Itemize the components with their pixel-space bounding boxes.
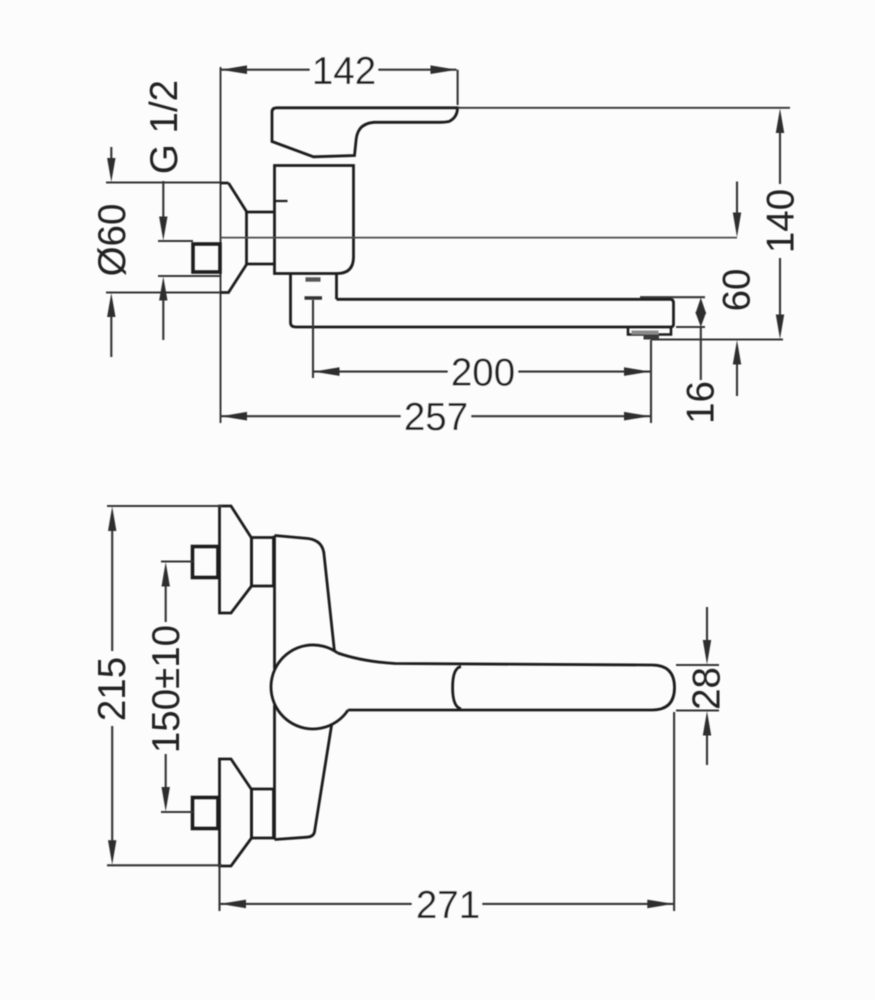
body parting tick (275, 200, 288, 202)
arrow G1/2 bottom (up, outside) (159, 277, 167, 301)
arrow 60 bottom (up, outside) (733, 340, 741, 365)
arrow 200 right (624, 367, 650, 376)
lower G1/2 nipple (thick) (193, 798, 219, 829)
ext 271 left (218, 866, 220, 911)
arrow 140 top (up) (776, 109, 784, 134)
arrow 215 bottom (down) (108, 840, 116, 865)
upper mounting nut (252, 538, 274, 587)
spout connector under body (291, 274, 337, 328)
label 142 (310, 52, 378, 88)
svg-text:200: 200 (451, 351, 515, 394)
upper G1/2 nipple (thick) (193, 547, 219, 578)
ext 28 bottom (676, 709, 719, 711)
svg-text:271: 271 (416, 884, 480, 927)
dim 28 shafts (706, 607, 708, 765)
escutcheon neck (247, 212, 275, 265)
escutcheon cone (side view) (221, 183, 247, 293)
svg-text:16: 16 (680, 381, 723, 424)
arrow 215 top (up) (108, 507, 116, 532)
connector ring tick lower (305, 296, 323, 300)
dim line 200 (313, 371, 651, 373)
label 271 (412, 887, 482, 921)
dim line 140 (779, 120, 781, 328)
lever grip end cap line (453, 667, 461, 709)
aerator dark insert (644, 335, 660, 340)
lever arm (338, 653, 675, 710)
svg-text:G 1/2: G 1/2 (143, 80, 186, 174)
arrow G1/2 top (down, outside) (159, 217, 167, 241)
svg-text:215: 215 (91, 657, 134, 721)
arrow 16 bowtie top (up) (695, 298, 706, 314)
ext lines Ø60 (106, 183, 221, 293)
dim 60 arrows shafts (736, 182, 738, 397)
dim G1/2 shafts (162, 181, 164, 340)
arrow 142 left (221, 65, 247, 74)
arrow 28 top (down, outside) (703, 640, 711, 665)
ext 215 top (107, 505, 222, 507)
connector ring tick upper (306, 277, 321, 281)
dim line 271 (220, 903, 674, 905)
arrow 150 top (up) (162, 562, 170, 587)
arrow 271 right (647, 900, 673, 909)
arrow Ø60 bottom (up, outside) (107, 293, 115, 317)
G1/2 nipple (thick) (193, 244, 220, 272)
svg-text:150±10: 150±10 (145, 625, 188, 753)
ext 150 top (161, 560, 193, 562)
lever ball (circle) (271, 645, 348, 729)
label 257 (401, 399, 471, 434)
arrow 140 bottom (down) (776, 315, 784, 340)
arrow 200 left (314, 367, 340, 376)
arrow Ø60 top (down, outside) (107, 158, 115, 182)
spout tube (296, 299, 674, 327)
aerator grey bar (632, 331, 659, 335)
ext line right 200/257 (spout tip) (650, 340, 652, 423)
svg-text:60: 60 (716, 269, 759, 312)
arrow 257 left (221, 412, 247, 421)
svg-text:140: 140 (760, 189, 803, 253)
arrow 257 right (624, 412, 650, 421)
arrow 16 bowtie bottom (down) (695, 312, 706, 327)
body back edge (wall side) (273, 536, 276, 840)
ext line 142 right (457, 70, 459, 105)
upper escutcheon cone (front) (220, 506, 252, 613)
dim line 257 (221, 415, 651, 417)
ext 271 right (arm end) (673, 712, 675, 911)
lower escutcheon cone (front) (220, 759, 252, 866)
dim line 142 (221, 69, 457, 71)
arrow 60 top (down, outside) (733, 213, 741, 238)
ext 28 top (676, 664, 719, 666)
dim 150 shafts (165, 576, 167, 798)
ext line handle top to 140 (458, 107, 791, 109)
handle lever (side view) (272, 108, 458, 157)
arrow 271 left (220, 900, 246, 909)
svg-text:257: 257 (404, 396, 468, 439)
dim Ø60 shafts (110, 147, 112, 357)
arrow 28 bottom (up, outside) (703, 711, 711, 736)
mixer body (side view) (275, 166, 354, 274)
arrow 150 bottom (down) (162, 787, 170, 812)
ext 215 bottom (107, 864, 222, 866)
ext line 200 left (spout pivot) (312, 300, 314, 378)
dim 16 shaft below (700, 327, 702, 380)
svg-text:Ø60: Ø60 (91, 204, 134, 277)
centerline axis (221, 237, 738, 239)
ext lines G1/2 (158, 241, 221, 276)
ext line aerator bottom to 140 (651, 338, 783, 340)
arrow 142 right (431, 65, 457, 74)
lower mounting nut (252, 789, 274, 838)
wire: wall face / extension line left (220, 67, 222, 423)
aerator housing (628, 327, 671, 335)
body outline right side (275, 536, 335, 651)
ext lines 16 (640, 297, 705, 327)
dim 215 shafts (111, 520, 113, 852)
svg-text:142: 142 (312, 50, 376, 93)
svg-text:28: 28 (686, 667, 729, 710)
label 200 (448, 354, 518, 389)
ext 150 bottom (161, 811, 193, 813)
